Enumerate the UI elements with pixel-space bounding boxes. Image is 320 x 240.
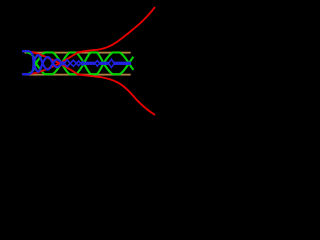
green matched ray B bbox=[26, 53, 133, 75]
blue bead diamond 6 (large) bbox=[109, 59, 115, 67]
blue guided ray A (damped oscillation) bbox=[22, 51, 64, 71]
channel top wall bbox=[25, 52, 131, 53]
red defocusing ray, lower-left to upper-right bbox=[31, 7, 155, 74]
blue axis line segment 3 bbox=[114, 62, 131, 65]
blue bead diamond 2 bbox=[70, 60, 76, 66]
red defocusing ray, upper-left to lower-right bbox=[31, 52, 155, 115]
green matched ray A bbox=[26, 52, 133, 74]
blue entrance lip bottom bbox=[22, 73, 29, 75]
blue bead diamond 3 bbox=[76, 61, 80, 66]
plasma channel beam-propagation figure bbox=[0, 0, 166, 137]
blue bead diamond 4 bbox=[81, 62, 84, 65]
blue entrance lip top bbox=[22, 50, 29, 52]
blue guided ray B (damped oscillation) bbox=[22, 55, 64, 74]
blue bead diamond 5 bbox=[95, 61, 100, 66]
blue axis line segment 2 bbox=[100, 62, 109, 65]
blue bead diamond 1 bbox=[64, 60, 70, 67]
channel bottom wall bbox=[25, 74, 131, 75]
blue axis line segment 1 bbox=[84, 62, 95, 65]
